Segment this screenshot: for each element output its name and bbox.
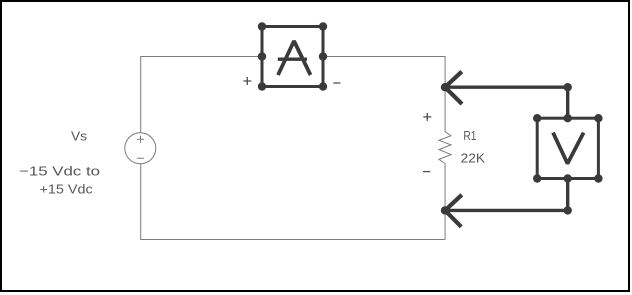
svg-text:−15 Vdc to: −15 Vdc to [19,164,100,179]
label -15 Vdc to [19,164,100,179]
junction dot bottom lead corner [564,206,572,214]
wire top-right horizontal [323,57,445,132]
voltage source Vs [125,133,156,164]
resistor R1 [439,132,451,164]
svg-text:R1: R1 [463,128,476,143]
wire top-left horizontal [141,57,262,134]
wire right vertical lower [444,164,446,240]
probe arrow bottom [441,195,462,227]
voltmeter V [533,114,603,183]
polarity + at resistor top [423,113,431,121]
label 22K [461,150,486,165]
polarity - at ammeter right [333,82,340,84]
label Vs [71,128,88,143]
wire bottom [141,164,445,240]
svg-text:Vs: Vs [71,128,88,143]
svg-text:+15 Vdc: +15 Vdc [40,182,94,197]
label R1 [463,128,476,143]
label +15 Vdc [40,182,94,197]
polarity + at ammeter left [243,77,251,85]
junction dot top lead corner [564,83,572,91]
ammeter A [258,22,327,90]
svg-text:22K: 22K [461,150,486,165]
voltmeter lead bottom (thick wire) [445,179,568,211]
polarity - at resistor bottom [423,171,430,173]
probe arrow top [441,72,462,104]
voltmeter lead top (thick wire) [445,87,568,118]
